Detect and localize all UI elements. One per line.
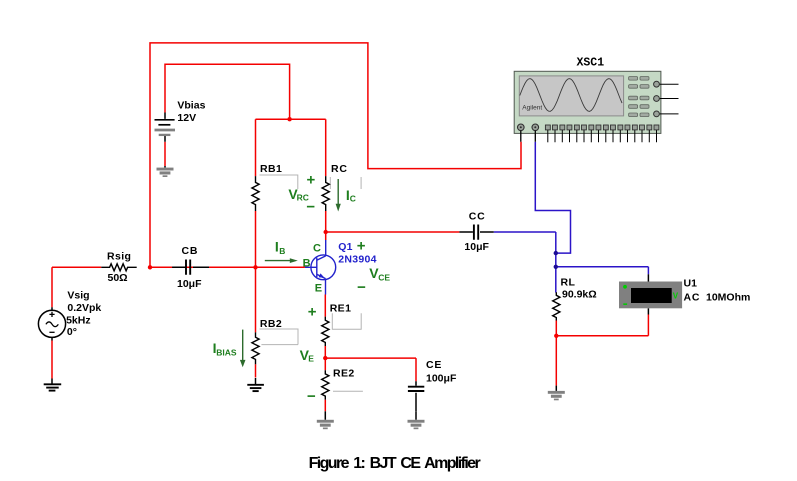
- svg-text:Rsig: Rsig: [107, 250, 131, 262]
- svg-text:50Ω: 50Ω: [108, 272, 128, 284]
- svg-text:CC: CC: [469, 210, 486, 222]
- svg-text:0°: 0°: [67, 326, 77, 338]
- svg-text:B: B: [279, 246, 285, 256]
- svg-text:5kHz: 5kHz: [66, 315, 91, 327]
- svg-text:CE: CE: [378, 273, 390, 283]
- svg-text:CB: CB: [182, 245, 199, 257]
- svg-text:U1: U1: [684, 278, 698, 290]
- svg-text:10μF: 10μF: [177, 278, 202, 290]
- svg-text:+: +: [307, 171, 316, 188]
- svg-text:Vsig: Vsig: [67, 290, 89, 302]
- svg-text:V: V: [673, 292, 679, 301]
- svg-text:+: +: [308, 304, 317, 321]
- svg-text:100μF: 100μF: [426, 372, 457, 384]
- svg-text:Q1: Q1: [338, 241, 353, 253]
- svg-text:RE1: RE1: [330, 303, 352, 315]
- svg-text:0.2Vpk: 0.2Vpk: [67, 302, 101, 314]
- svg-text:RE2: RE2: [333, 367, 355, 379]
- svg-text:E: E: [315, 283, 322, 295]
- svg-text:RB2: RB2: [260, 318, 282, 330]
- svg-text:RL: RL: [561, 276, 576, 288]
- svg-text:12V: 12V: [177, 112, 196, 124]
- svg-text:B: B: [303, 258, 311, 270]
- svg-text:CE: CE: [426, 359, 442, 371]
- svg-text:RB1: RB1: [260, 163, 282, 175]
- svg-text:AC: AC: [684, 291, 701, 303]
- svg-text:−: −: [306, 199, 315, 216]
- svg-text:BIAS: BIAS: [216, 348, 237, 358]
- svg-text:E: E: [308, 354, 314, 364]
- svg-text:10μF: 10μF: [464, 241, 489, 253]
- svg-text:−: −: [357, 279, 366, 296]
- svg-text:2N3904: 2N3904: [338, 254, 377, 266]
- svg-text:Vbias: Vbias: [177, 99, 205, 111]
- svg-text:RC: RC: [331, 163, 348, 175]
- svg-text:C: C: [313, 243, 321, 255]
- svg-text:Figure 1: BJT CE Amplifier: Figure 1: BJT CE Amplifier: [309, 455, 481, 472]
- svg-text:XSC1: XSC1: [577, 56, 605, 69]
- svg-text:−: −: [307, 388, 316, 405]
- svg-text:10MOhm: 10MOhm: [706, 291, 750, 303]
- svg-text:Agilent: Agilent: [522, 105, 542, 112]
- svg-text:+: +: [357, 238, 366, 255]
- svg-text:90.9kΩ: 90.9kΩ: [562, 289, 597, 301]
- svg-text:C: C: [350, 193, 356, 203]
